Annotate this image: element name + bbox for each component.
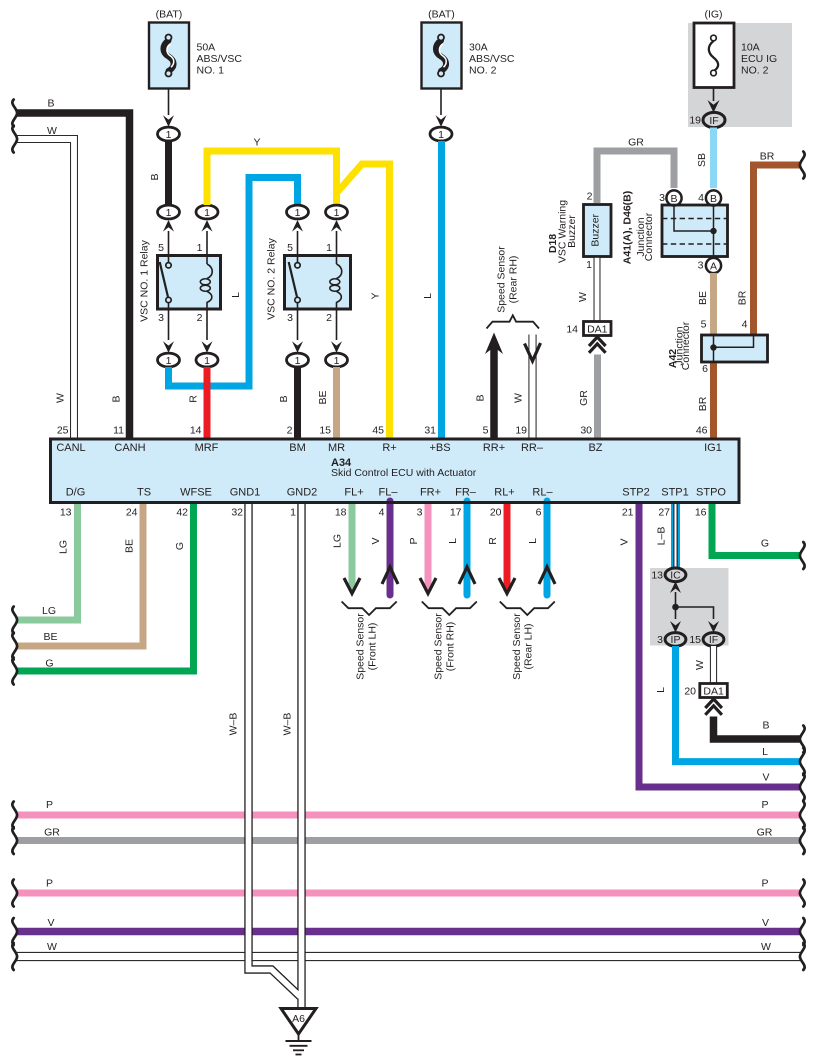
svg-text:11: 11 [113,425,124,437]
svg-text:5: 5 [483,425,489,437]
wire P horizontal bus 2 [16,878,800,894]
svg-text:(Rear RH): (Rear RH) [508,256,520,304]
svg-text:DA1: DA1 [703,685,724,697]
arrow into relay2 pin5 oval [287,220,303,256]
svg-text:31: 31 [424,425,436,437]
ECU bottom pin names [66,487,727,499]
svg-text:14: 14 [190,425,202,437]
svg-text:R+: R+ [382,442,396,454]
wire V horizontal bus [16,917,800,932]
connector oval 1 (relay2 pin5 top) [287,205,309,219]
wire LG D/G to off-page [16,501,78,620]
svg-text:IF: IF [709,115,718,127]
svg-text:L: L [655,687,667,693]
svg-text:W: W [694,660,706,670]
svg-text:3: 3 [417,507,423,519]
connector oval IF (pin 19) [689,112,725,127]
svg-text:1: 1 [438,129,444,141]
svg-text:P: P [408,537,420,544]
speed sensor Rear LH brace + label [500,602,555,680]
svg-text:1: 1 [334,207,340,219]
svg-text:BZ: BZ [588,442,602,454]
svg-text:L: L [527,538,539,544]
svg-text:1: 1 [166,129,172,141]
relay1 pin2 lead + arrow [197,309,213,353]
svg-text:Connector: Connector [643,212,655,261]
svg-text:IF: IF [709,634,718,646]
svg-text:W: W [47,125,57,137]
svg-text:L: L [447,538,459,544]
svg-text:50A: 50A [197,42,216,54]
svg-text:B: B [710,193,717,205]
svg-text:5: 5 [287,242,293,254]
relay VSC NO.1 Relay [139,239,221,321]
wire P FR+ to speed sensor [408,501,436,594]
svg-text:(BAT): (BAT) [428,9,455,21]
svg-text:GR: GR [44,827,60,839]
svg-text:B: B [149,173,161,180]
svg-text:GND2: GND2 [287,487,318,499]
speed sensor Rear RH label and brace [487,246,540,329]
connector oval IP (pin 3) [657,633,686,647]
wire BR A42 pin6 to IG1 [697,362,714,439]
connector oval 1 (fuse1) [158,127,180,141]
connector oval 1 (relay1 pin3 bottom) [158,353,180,367]
wire fuse2 to connector [436,89,447,127]
svg-text:1: 1 [295,207,301,219]
wire G WFSE to off-page [16,501,194,671]
junction connector A41(A) D46(B) [622,191,728,265]
svg-text:B: B [278,395,290,402]
wire W-B GND1 to ground [228,501,301,997]
svg-text:TS: TS [137,487,151,499]
ECU top pin names [56,442,722,454]
svg-text:1: 1 [326,242,332,254]
wire W speed sensor Rear RH to RR- [513,335,541,440]
svg-text:RR+: RR+ [483,442,505,454]
ground A6 [281,1009,316,1055]
svg-text:46: 46 [696,425,708,437]
svg-text:SB: SB [696,153,708,167]
arrow into relay1 pin1 oval [197,220,213,256]
svg-text:L: L [762,746,768,758]
wire B off-page to CANH [16,98,130,440]
svg-text:LG: LG [332,534,344,548]
svg-text:W: W [513,393,525,403]
svg-text:B: B [111,395,123,402]
wire V FL- to speed sensor [370,501,398,595]
svg-text:ECU IG: ECU IG [741,53,777,65]
svg-text:1: 1 [166,355,172,367]
svg-text:25: 25 [57,425,69,437]
svg-text:V: V [619,538,631,545]
wire V STP2 to off-page [619,501,801,787]
svg-text:DA1: DA1 [587,323,608,335]
svg-text:(BAT): (BAT) [156,9,183,21]
svg-text:BR: BR [737,290,749,305]
wire GR DA1 to BZ [578,355,598,440]
svg-text:W: W [577,292,589,302]
svg-text:Y: Y [370,292,382,299]
wire W off-page to CANL [16,125,74,439]
wire W buzzer pin1 to DA1 [577,257,597,323]
svg-text:BE: BE [317,390,329,404]
svg-text:FR+: FR+ [420,487,441,499]
connector circle B (pin 4) [698,190,721,205]
fuse 10A ECU IG NO.2 [694,9,777,88]
connector circle B (pin 3) [659,190,681,205]
svg-text:5: 5 [701,319,707,331]
fuse 30A ABS/VSC NO.2 [422,9,515,89]
svg-text:P: P [46,878,53,890]
svg-text:3: 3 [657,634,663,646]
buzzer D18 VSC Warning Buzzer [547,191,611,272]
svg-text:Buzzer: Buzzer [566,215,578,248]
svg-text:10A: 10A [741,42,760,54]
svg-text:FR–: FR– [455,487,477,499]
svg-text:19: 19 [689,115,701,127]
svg-text:13: 13 [651,570,663,582]
svg-text:(Front LH): (Front LH) [367,623,379,671]
svg-text:B: B [762,720,769,732]
svg-text:19: 19 [515,425,527,437]
svg-text:13: 13 [60,507,72,519]
svg-text:30A: 30A [469,42,488,54]
wire L relay1 pin3 to relay2 pin5 [169,178,298,387]
arrow into relay1 pin5 oval [158,220,174,256]
svg-text:2: 2 [587,191,593,203]
svg-text:W: W [55,393,67,403]
svg-text:3: 3 [287,312,293,324]
svg-text:W–B: W–B [282,713,294,736]
gray box (IG circuit) [688,23,792,127]
svg-text:1: 1 [334,355,340,367]
svg-text:32: 32 [231,507,243,519]
arrow up into IC + junction [670,581,719,632]
svg-text:P: P [761,878,768,890]
svg-text:W: W [47,941,57,953]
svg-text:A: A [710,260,717,272]
svg-text:17: 17 [450,507,462,519]
wire B DA1 to off-page [714,717,801,740]
svg-text:27: 27 [658,507,670,519]
svg-text:L–B: L–B [656,527,668,546]
svg-text:ABS/VSC: ABS/VSC [469,53,515,65]
svg-text:+BS: +BS [429,442,450,454]
border overlays to keep box outlines continuous [51,439,740,503]
svg-text:3: 3 [158,312,164,324]
svg-text:3: 3 [698,260,704,272]
wire GR buzzer pin2 to A41 pin3 [597,137,674,205]
svg-text:Speed Sensor: Speed Sensor [511,613,523,680]
svg-text:A6: A6 [292,1013,305,1025]
svg-text:V: V [762,917,769,929]
svg-text:Y: Y [253,137,260,149]
off-page brace BR [800,152,805,179]
ECU bottom pin numbers [60,507,707,519]
svg-text:18: 18 [335,507,347,519]
wire W horizontal bus [16,941,800,957]
svg-text:W–B: W–B [228,713,240,736]
wire G STPO to off-page [712,501,800,556]
svg-text:G: G [761,538,769,550]
svg-text:1: 1 [166,207,172,219]
connector oval 1 (fuse2) [430,127,452,141]
svg-text:FL–: FL– [379,487,399,499]
svg-text:V: V [47,917,54,929]
connector oval 1 (relay2 pin2 bottom) [326,353,348,367]
svg-text:45: 45 [372,425,384,437]
speed sensor Front LH brace + label [342,602,397,680]
svg-text:4: 4 [742,319,748,331]
svg-text:P: P [46,799,53,811]
svg-text:14: 14 [566,324,578,336]
wire W IF to DA1 [694,646,714,684]
svg-text:VSC NO. 1 Relay: VSC NO. 1 Relay [139,239,151,321]
svg-text:VSC NO. 2 Relay: VSC NO. 2 Relay [266,237,278,319]
svg-text:G: G [45,658,53,670]
wire R relay1 pin2 to MRF [188,367,208,439]
svg-text:V: V [370,537,382,544]
svg-text:BE: BE [124,539,136,553]
wire P horizontal bus 1 [16,799,800,815]
relay2 pin3 lead + arrow [287,309,303,353]
svg-text:1: 1 [204,207,210,219]
svg-text:IC: IC [670,570,681,582]
svg-text:V: V [762,772,769,784]
svg-text:GR: GR [757,827,773,839]
svg-text:BR: BR [760,151,775,163]
wire L RL- to speed sensor [527,501,555,595]
wire L-B STP1 to IC [656,501,678,568]
svg-text:BE: BE [697,291,709,305]
svg-text:Connector: Connector [680,321,692,370]
svg-text:15: 15 [689,634,701,646]
ECU top pin numbers [57,425,708,437]
wire fuse IG to IF connector [708,88,720,113]
wire BE relay2 pin2 to MR [317,367,337,439]
wire L IP to off-page [655,646,800,762]
svg-text:IP: IP [671,634,681,646]
svg-text:4: 4 [698,192,704,204]
wire W-B GND2 to ground [282,501,302,1007]
svg-text:42: 42 [176,507,188,519]
wire Y relay1 pin1 up over to relay2 pin1 and R+ [207,137,390,440]
svg-text:ABS/VSC: ABS/VSC [197,53,243,65]
relay2 pin2 lead + arrow [326,309,342,353]
svg-text:Buzzer: Buzzer [590,213,602,246]
svg-text:RR–: RR– [521,442,544,454]
connector oval IF (pin 15) [689,633,724,647]
connector circle A (pin 3) [698,258,721,273]
wire fuse1 to connector [163,89,174,127]
gray box (stop lamp circuit) [650,568,729,646]
connector oval IC (pin 13) [651,568,686,582]
svg-text:CANL: CANL [56,442,85,454]
svg-text:L: L [422,293,434,299]
svg-text:(Rear LH): (Rear LH) [523,623,535,669]
wire L FR- to speed sensor [447,501,475,595]
svg-text:MR: MR [328,442,345,454]
svg-text:(IG): (IG) [704,9,722,21]
svg-text:20: 20 [490,507,502,519]
wire L fuse2 to +BS [422,141,442,439]
connector oval 1 (relay2 pin3 bottom) [287,353,309,367]
off-page brace W [12,126,17,153]
connector oval 1 (relay1 pin2 bottom) [196,353,218,367]
svg-text:3: 3 [659,192,665,204]
svg-text:6: 6 [702,363,708,375]
svg-text:2: 2 [287,425,293,437]
svg-text:21: 21 [622,507,634,519]
svg-text:30: 30 [580,425,592,437]
svg-text:FL+: FL+ [344,487,363,499]
svg-text:LG: LG [42,605,56,617]
connector oval 1 (relay2 pin1 top) [326,205,348,219]
wire SB IF to A41 pin4 [696,128,714,189]
wire B fuse1 to relay1 connector [149,141,169,205]
off-page brace B [12,100,17,127]
svg-text:GR: GR [628,137,644,149]
svg-text:CANH: CANH [114,442,145,454]
svg-text:1: 1 [197,242,203,254]
svg-text:R: R [487,537,499,545]
arrow into relay2 pin1 oval [326,220,342,256]
svg-text:STP2: STP2 [622,487,650,499]
svg-text:1: 1 [295,355,301,367]
svg-text:6: 6 [536,507,542,519]
svg-text:G: G [174,542,186,550]
svg-text:GND1: GND1 [230,487,261,499]
svg-text:NO. 2: NO. 2 [469,65,497,77]
shield connector DA1 (buzzer side) [566,322,611,353]
svg-text:R: R [188,395,200,403]
svg-text:BM: BM [289,442,306,454]
svg-text:15: 15 [319,425,331,437]
svg-text:20: 20 [684,686,696,698]
connector oval 1 (relay1 pin1 top) [196,205,218,219]
wire BR off-page to A42 pin4 [737,151,802,336]
wire BE A41 to A42 pin5 [697,273,714,335]
svg-text:RL–: RL– [532,487,553,499]
svg-text:GR: GR [578,390,590,406]
white cores of W-B wires [299,501,305,1007]
wire R RL+ to speed sensor [487,501,515,594]
connector oval 1 (relay1 pin5 top) [158,205,180,219]
svg-text:5: 5 [158,242,164,254]
svg-text:BE: BE [43,631,57,643]
speed sensor Front RH brace + label [422,602,477,680]
svg-text:MRF: MRF [195,442,219,454]
svg-text:Speed Sensor: Speed Sensor [496,246,508,313]
svg-text:1: 1 [290,507,296,519]
relay1 pin3 lead + arrow [158,309,174,353]
shield connector DA1 (pin 20) [684,684,727,715]
svg-text:W: W [761,941,771,953]
svg-text:Skid Control ECU with Actuator: Skid Control ECU with Actuator [331,467,477,479]
svg-text:P: P [761,799,768,811]
ECU A34 Skid Control ECU with Actuator [51,439,740,503]
svg-text:B: B [47,98,54,110]
svg-text:L: L [230,292,242,298]
svg-text:BR: BR [697,396,709,411]
wire LG FL+ to speed sensor [332,501,361,594]
svg-text:D/G: D/G [66,487,86,499]
svg-text:NO. 2: NO. 2 [741,65,769,77]
svg-text:B: B [475,394,487,401]
svg-text:2: 2 [197,312,203,324]
svg-text:16: 16 [695,507,707,519]
wire BE TS to off-page [16,501,143,646]
svg-text:RL+: RL+ [494,487,515,499]
svg-text:Speed Sensor: Speed Sensor [433,613,445,680]
svg-text:24: 24 [126,507,138,519]
svg-text:2: 2 [326,312,332,324]
svg-text:1: 1 [204,355,210,367]
wire B speed sensor Rear RH to RR+ [475,333,504,440]
wire B relay2 pin3 to BM [278,367,298,439]
fuse 50A ABS/VSC NO.1 [149,9,242,89]
svg-text:4: 4 [379,507,385,519]
svg-text:STPO: STPO [696,487,726,499]
svg-text:Speed Sensor: Speed Sensor [355,613,367,680]
svg-text:NO. 1: NO. 1 [197,65,225,77]
svg-text:STP1: STP1 [661,487,689,499]
junction connector A42 [667,319,768,376]
svg-text:IG1: IG1 [704,442,722,454]
svg-text:B: B [670,193,677,205]
svg-text:(Front RH): (Front RH) [445,622,457,672]
wire GR horizontal bus [16,827,800,841]
svg-text:LG: LG [58,540,70,554]
svg-text:WFSE: WFSE [180,487,212,499]
svg-text:1: 1 [586,259,592,271]
relay VSC NO.2 Relay [266,237,351,319]
svg-text:A41(A), D46(B): A41(A), D46(B) [622,191,634,265]
